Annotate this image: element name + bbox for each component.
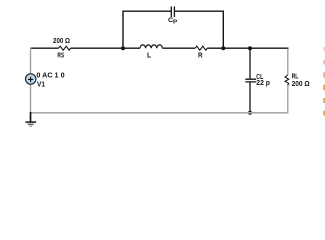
node dot CL bottom bbox=[248, 111, 252, 115]
wire RL rail upper (gray) bbox=[287, 49, 289, 75]
wire CL vertical lower bbox=[249, 82, 251, 112]
wire top loop left horizontal bbox=[123, 10, 171, 12]
svg-text:200 Ω: 200 Ω bbox=[53, 38, 70, 45]
node dot right loop bbox=[221, 46, 225, 50]
wire L to R bbox=[162, 47, 195, 49]
svg-text:22 p: 22 p bbox=[256, 80, 270, 87]
resistor RS bbox=[59, 46, 71, 50]
capacitor Cp plates bbox=[171, 7, 174, 18]
ground bar 1 bbox=[25, 121, 36, 123]
capacitor CL plates bbox=[245, 79, 256, 82]
svg-text:P: P bbox=[173, 20, 178, 26]
right edge clipped text mark 4 bbox=[323, 85, 325, 91]
wire CL vertical upper bbox=[249, 48, 251, 78]
right edge clipped text mark 5 bbox=[323, 98, 325, 103]
resistor R bbox=[195, 46, 207, 50]
svg-text:V1: V1 bbox=[37, 80, 45, 89]
wire loop right vertical bbox=[222, 11, 224, 49]
wire main left segment bbox=[31, 47, 59, 49]
ground stub bbox=[30, 112, 32, 122]
svg-text:RS: RS bbox=[57, 53, 64, 60]
svg-text:L: L bbox=[147, 53, 152, 60]
svg-text:R: R bbox=[198, 52, 203, 59]
inductor L bbox=[140, 45, 162, 48]
wire bottom rail (gray) bbox=[31, 112, 289, 114]
node dot left loop bbox=[121, 46, 125, 50]
wire top loop right horizontal bbox=[174, 10, 223, 12]
wire R to right corner bbox=[207, 47, 288, 49]
svg-text:200 Ω: 200 Ω bbox=[292, 79, 310, 88]
wire left rail upper (gray) bbox=[30, 48, 32, 74]
wire RS to node A bbox=[71, 47, 141, 49]
resistor RL zigzag bbox=[285, 75, 289, 85]
right edge clipped text mark 3 bbox=[323, 72, 325, 78]
wire left rail lower (gray) bbox=[30, 85, 32, 113]
voltage source V1 plus sign bbox=[28, 77, 33, 82]
svg-text:0 AC 1 0: 0 AC 1 0 bbox=[36, 72, 64, 80]
voltage source V1 circle bbox=[26, 74, 36, 84]
right edge clipped text mark 6 bbox=[323, 111, 325, 116]
right edge clipped text mark 1 bbox=[323, 47, 325, 51]
right edge clipped text mark 2 bbox=[323, 60, 325, 65]
node dot CL top bbox=[248, 46, 252, 50]
ground bar 3 bbox=[29, 125, 32, 127]
ground bar 2 bbox=[28, 123, 34, 125]
wire loop left vertical bbox=[122, 11, 124, 49]
wire RL rail lower (gray) bbox=[287, 85, 289, 112]
